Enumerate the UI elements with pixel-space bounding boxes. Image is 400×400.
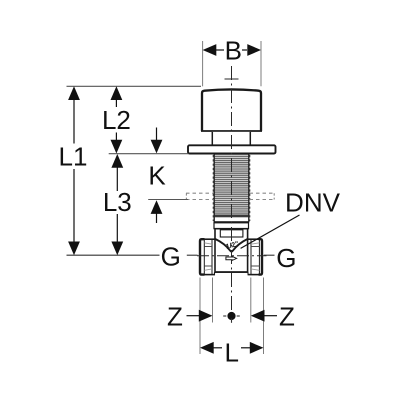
svg-text:G: G (161, 242, 181, 272)
bonnet (214, 223, 249, 229)
dimension B (203, 35, 261, 65)
svg-text:Z: Z (279, 302, 295, 332)
svg-text:L: L (224, 337, 238, 367)
flange (188, 145, 276, 153)
right coupling (248, 239, 262, 274)
DNV leader line (241, 215, 300, 248)
svg-text:K: K (148, 161, 166, 191)
threaded rod (214, 154, 250, 223)
dimension L1 (59, 86, 88, 255)
svg-text:Z: Z (167, 302, 183, 332)
dimension L (200, 337, 264, 367)
wall plane dashed box (186, 193, 275, 199)
svg-text:L1: L1 (59, 142, 88, 172)
neck (212, 132, 250, 146)
center mark dot (223, 312, 240, 323)
top reference line (67, 85, 202, 87)
K tick line (148, 199, 188, 201)
protection cap (201, 89, 262, 131)
B extension lines (203, 41, 261, 86)
vertical centerline (225, 66, 239, 310)
body bottom edge (215, 271, 249, 273)
V funnel (215, 239, 247, 252)
svg-text:L3: L3 (103, 187, 132, 217)
svg-text:G: G (276, 243, 296, 273)
dimension Z right (251, 302, 295, 332)
dimension Z left (167, 302, 212, 332)
svg-text:L2: L2 (102, 105, 131, 135)
dimension K (148, 128, 166, 224)
G centerline right (264, 254, 275, 256)
G centerline left (67, 254, 198, 256)
wall reference line (109, 153, 189, 155)
svg-text:DNV: DNV (285, 187, 341, 217)
dimension L2 (102, 86, 131, 153)
svg-text:B: B (225, 35, 242, 65)
valve body (215, 229, 248, 272)
flow arrow (226, 256, 237, 260)
horizontal centerline through body (197, 255, 267, 257)
bottom extension lines (200, 278, 264, 355)
inner window (220, 230, 243, 237)
left coupling (200, 239, 215, 274)
dimension L3 (103, 154, 132, 255)
